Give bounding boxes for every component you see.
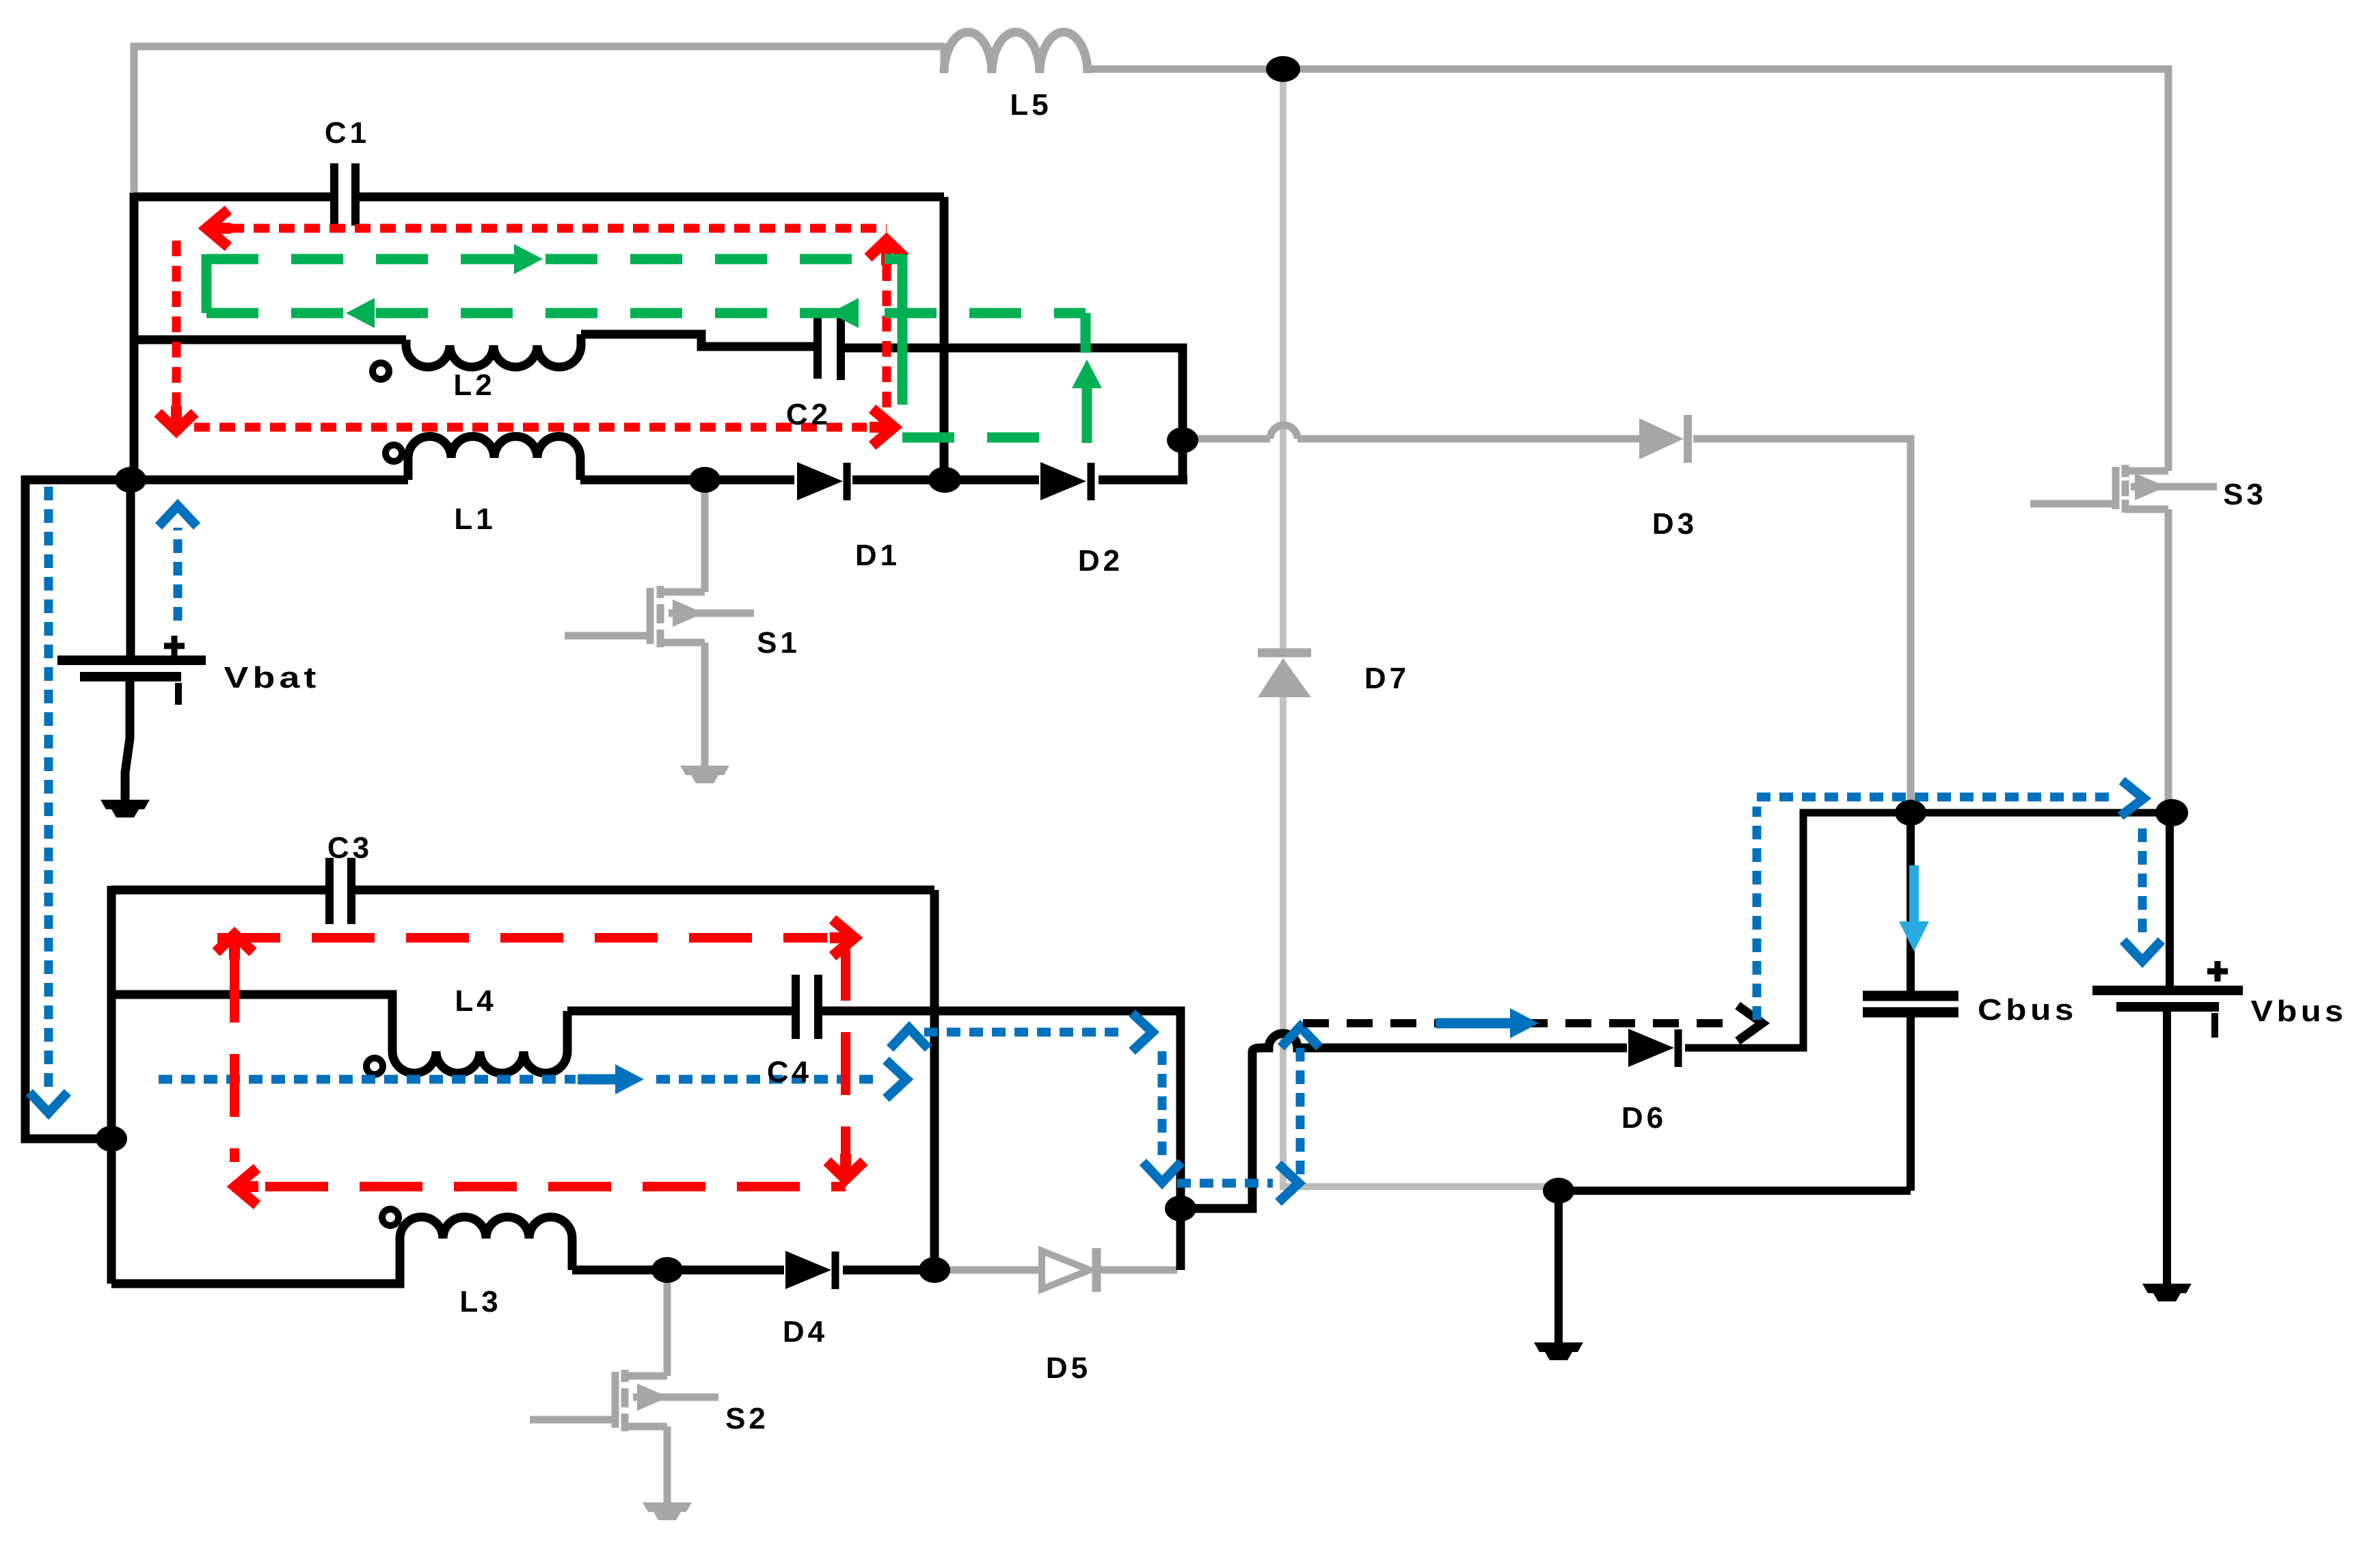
svg-text:S3: S3 xyxy=(2223,478,2267,511)
wire lower cell top edge right xyxy=(354,886,934,895)
svg-text:C1: C1 xyxy=(325,116,370,150)
wire red loop right (upper cell) xyxy=(883,265,891,431)
wire red loop top (lower cell) xyxy=(217,933,827,943)
ground S1 xyxy=(680,766,729,775)
node lower-left xyxy=(96,1126,127,1152)
svg-text:L3: L3 xyxy=(459,1285,501,1319)
wire node to D3 xyxy=(1183,435,1270,443)
wire red loop bottom (upper cell) xyxy=(194,423,867,432)
dot L2 polarity xyxy=(373,363,389,379)
wire lower cell bottom edge xyxy=(111,1239,400,1284)
BLACK-WIRES xyxy=(25,193,2243,1360)
wire L5 left stub xyxy=(941,43,948,71)
svg-text:C2: C2 xyxy=(786,398,831,431)
node S1 drain xyxy=(689,467,720,493)
wire upper cell left edge xyxy=(130,193,139,480)
wire D7 column upper xyxy=(1280,69,1287,651)
wire green right corner vertical xyxy=(1081,313,1091,353)
wire L2 to C2 xyxy=(581,334,813,347)
wire red loop left (upper cell) xyxy=(172,241,181,409)
svg-text:D3: D3 xyxy=(1652,507,1697,541)
wire blue riser to bus row xyxy=(1753,807,1762,1020)
wire black dashed commutation path xyxy=(1303,1019,1736,1027)
capacitor Cbus xyxy=(1863,991,1958,1001)
wire red loop right (lower cell) xyxy=(841,938,850,1154)
node L5 top xyxy=(1266,56,1300,82)
node D1-D2 xyxy=(928,467,961,493)
wire Cbus bottom column xyxy=(1907,1017,1915,1191)
svg-text:D5: D5 xyxy=(1046,1351,1091,1385)
capacitor C3 xyxy=(325,858,334,924)
wire blue solid arrow on dashed path xyxy=(1436,1018,1513,1029)
wire upper cell right edge xyxy=(940,197,949,480)
diode D4 xyxy=(785,1251,831,1289)
node Vbus top xyxy=(2155,799,2188,826)
wire D2 to corner xyxy=(1099,476,1187,485)
wire red loop bottom (lower cell) xyxy=(265,1182,846,1191)
node Cbus top xyxy=(1895,800,1926,826)
node S2 drain xyxy=(651,1257,683,1283)
ground Vbat xyxy=(100,800,150,809)
wire ground stub xyxy=(1554,1191,1563,1344)
transistor S3 xyxy=(2128,468,2168,475)
battery Vbus xyxy=(2092,986,2243,995)
wire blue down to node row xyxy=(1158,1051,1167,1157)
svg-text:C3: C3 xyxy=(327,831,373,865)
svg-text:L2: L2 xyxy=(453,368,495,402)
wire D5 left lead xyxy=(939,1267,1039,1274)
ground mid xyxy=(1534,1342,1583,1352)
node D2-D3 xyxy=(1167,427,1198,453)
wire blue hop up arrow xyxy=(890,1028,928,1049)
diode D6 xyxy=(1628,1029,1674,1067)
node Cbus top column xyxy=(1907,813,1915,992)
wire D7 column lower xyxy=(1280,696,1287,1187)
wire bottom bus row xyxy=(1552,1187,1911,1195)
wire L4 to C4 xyxy=(567,1007,792,1016)
wire D7 to ground node xyxy=(1280,1183,1552,1190)
node Vbat-L1 xyxy=(115,467,146,493)
FLOWPATHS xyxy=(29,210,2161,1205)
transistor S2 xyxy=(664,1270,671,1376)
wire blue lower-cell row xyxy=(159,1075,576,1084)
inductor L1 xyxy=(408,437,580,481)
wire D3 to Cbus column xyxy=(1693,439,1911,807)
wire D6 to Cbus node xyxy=(1685,813,2160,1048)
svg-text:S2: S2 xyxy=(725,1402,769,1435)
svg-text:D6: D6 xyxy=(1621,1101,1667,1135)
wire C2 to right corner xyxy=(845,348,1183,480)
ground S2 xyxy=(643,1502,692,1512)
wire D1 to D2 xyxy=(852,476,1039,485)
wire green loop left xyxy=(202,254,212,313)
wire upper cell top edge left xyxy=(134,193,331,202)
wire blue Vbat up arrow xyxy=(174,528,183,621)
wire upper cell top edge right xyxy=(358,193,944,202)
inductor L3 xyxy=(400,1217,572,1271)
dot L4 polarity xyxy=(366,1058,383,1074)
wire L4 row left xyxy=(111,995,392,1051)
wire L5 to top-right corner xyxy=(1088,69,2168,471)
svg-text:C4: C4 xyxy=(767,1055,812,1089)
wire L2 row left xyxy=(134,336,406,344)
wire Vbus top lead xyxy=(2166,813,2174,988)
wire Vbat bottom lead xyxy=(125,681,130,801)
wire blue short row to D7 column xyxy=(1177,1179,1273,1188)
wire red loop left (lower cell) xyxy=(230,960,239,1162)
wire green up arrow into C2 row xyxy=(1082,384,1092,443)
wire cyan Cbus arrow xyxy=(1909,865,1919,924)
diode D1 xyxy=(797,462,843,500)
dot L1 polarity xyxy=(386,445,402,461)
svg-text:Cbus: Cbus xyxy=(1978,993,2077,1027)
wire gray top-left riser xyxy=(134,46,944,194)
wire blue down into Vbus xyxy=(2138,828,2147,938)
svg-text:Vbat: Vbat xyxy=(224,661,321,694)
svg-text:D4: D4 xyxy=(783,1315,828,1349)
wire hop over D7 column xyxy=(1270,425,1297,439)
capacitor C4 xyxy=(792,975,800,1039)
wire L3 to D4 xyxy=(572,1266,784,1275)
svg-text:L4: L4 xyxy=(455,984,496,1018)
diode D7 xyxy=(1258,649,1311,658)
inductor L4 xyxy=(392,1011,567,1073)
wire blue upper jog row xyxy=(924,1028,1127,1037)
svg-text:L1: L1 xyxy=(454,502,496,536)
wire blue bus row to Vbus xyxy=(1757,793,2114,802)
wire green mid vertical xyxy=(898,254,908,405)
wire blue left column xyxy=(44,487,53,1092)
inductor L5 xyxy=(944,32,1088,73)
wire Vbat top lead xyxy=(126,480,135,658)
svg-text:L5: L5 xyxy=(1010,88,1051,122)
wire blue riser to D6 dashed row xyxy=(1296,1047,1305,1174)
wire lower cell left edge xyxy=(107,886,116,1284)
svg-text:S1: S1 xyxy=(757,626,800,660)
battery Vbat xyxy=(57,655,206,665)
wire C4 row to right column xyxy=(822,1011,1181,1270)
wire node branch to D6 row xyxy=(1181,1052,1252,1208)
node bus ground xyxy=(1543,1178,1574,1204)
dot L3 polarity xyxy=(382,1209,399,1226)
wire L1 to D1 xyxy=(580,476,794,485)
svg-text:D7: D7 xyxy=(1364,662,1410,695)
wire red loop top (upper cell) xyxy=(228,224,887,233)
node C4-D5 column xyxy=(1165,1195,1196,1221)
transistor S1 xyxy=(701,480,709,592)
wire node to far left xyxy=(25,480,131,1139)
wire green lower row to up arrow xyxy=(902,433,1061,443)
wire green loop top xyxy=(206,254,902,265)
svg-text:D2: D2 xyxy=(1078,544,1123,578)
capacitor C2 xyxy=(813,317,822,379)
svg-text:D1: D1 xyxy=(855,539,900,572)
diode D5 xyxy=(1042,1251,1090,1289)
svg-text:Vbus: Vbus xyxy=(2251,995,2347,1028)
inductor L2 xyxy=(406,334,581,367)
wire D6 row left xyxy=(1252,1033,1627,1052)
capacitor C1 xyxy=(330,163,338,226)
diode D2 xyxy=(1040,462,1086,500)
wire L1 row: node to L1 xyxy=(131,476,408,485)
wire lower cell top edge left xyxy=(111,886,326,895)
ground Vbus xyxy=(2142,1284,2192,1293)
node D4-D5 xyxy=(919,1257,950,1283)
wire lower cell right edge xyxy=(930,890,939,1270)
wire green loop bottom xyxy=(206,308,1086,319)
diode D3 xyxy=(1639,418,1684,459)
wire D5 right lead xyxy=(1101,1267,1177,1274)
wire D4 to node xyxy=(843,1266,939,1275)
wire Vbus bottom lead xyxy=(2163,1010,2171,1286)
